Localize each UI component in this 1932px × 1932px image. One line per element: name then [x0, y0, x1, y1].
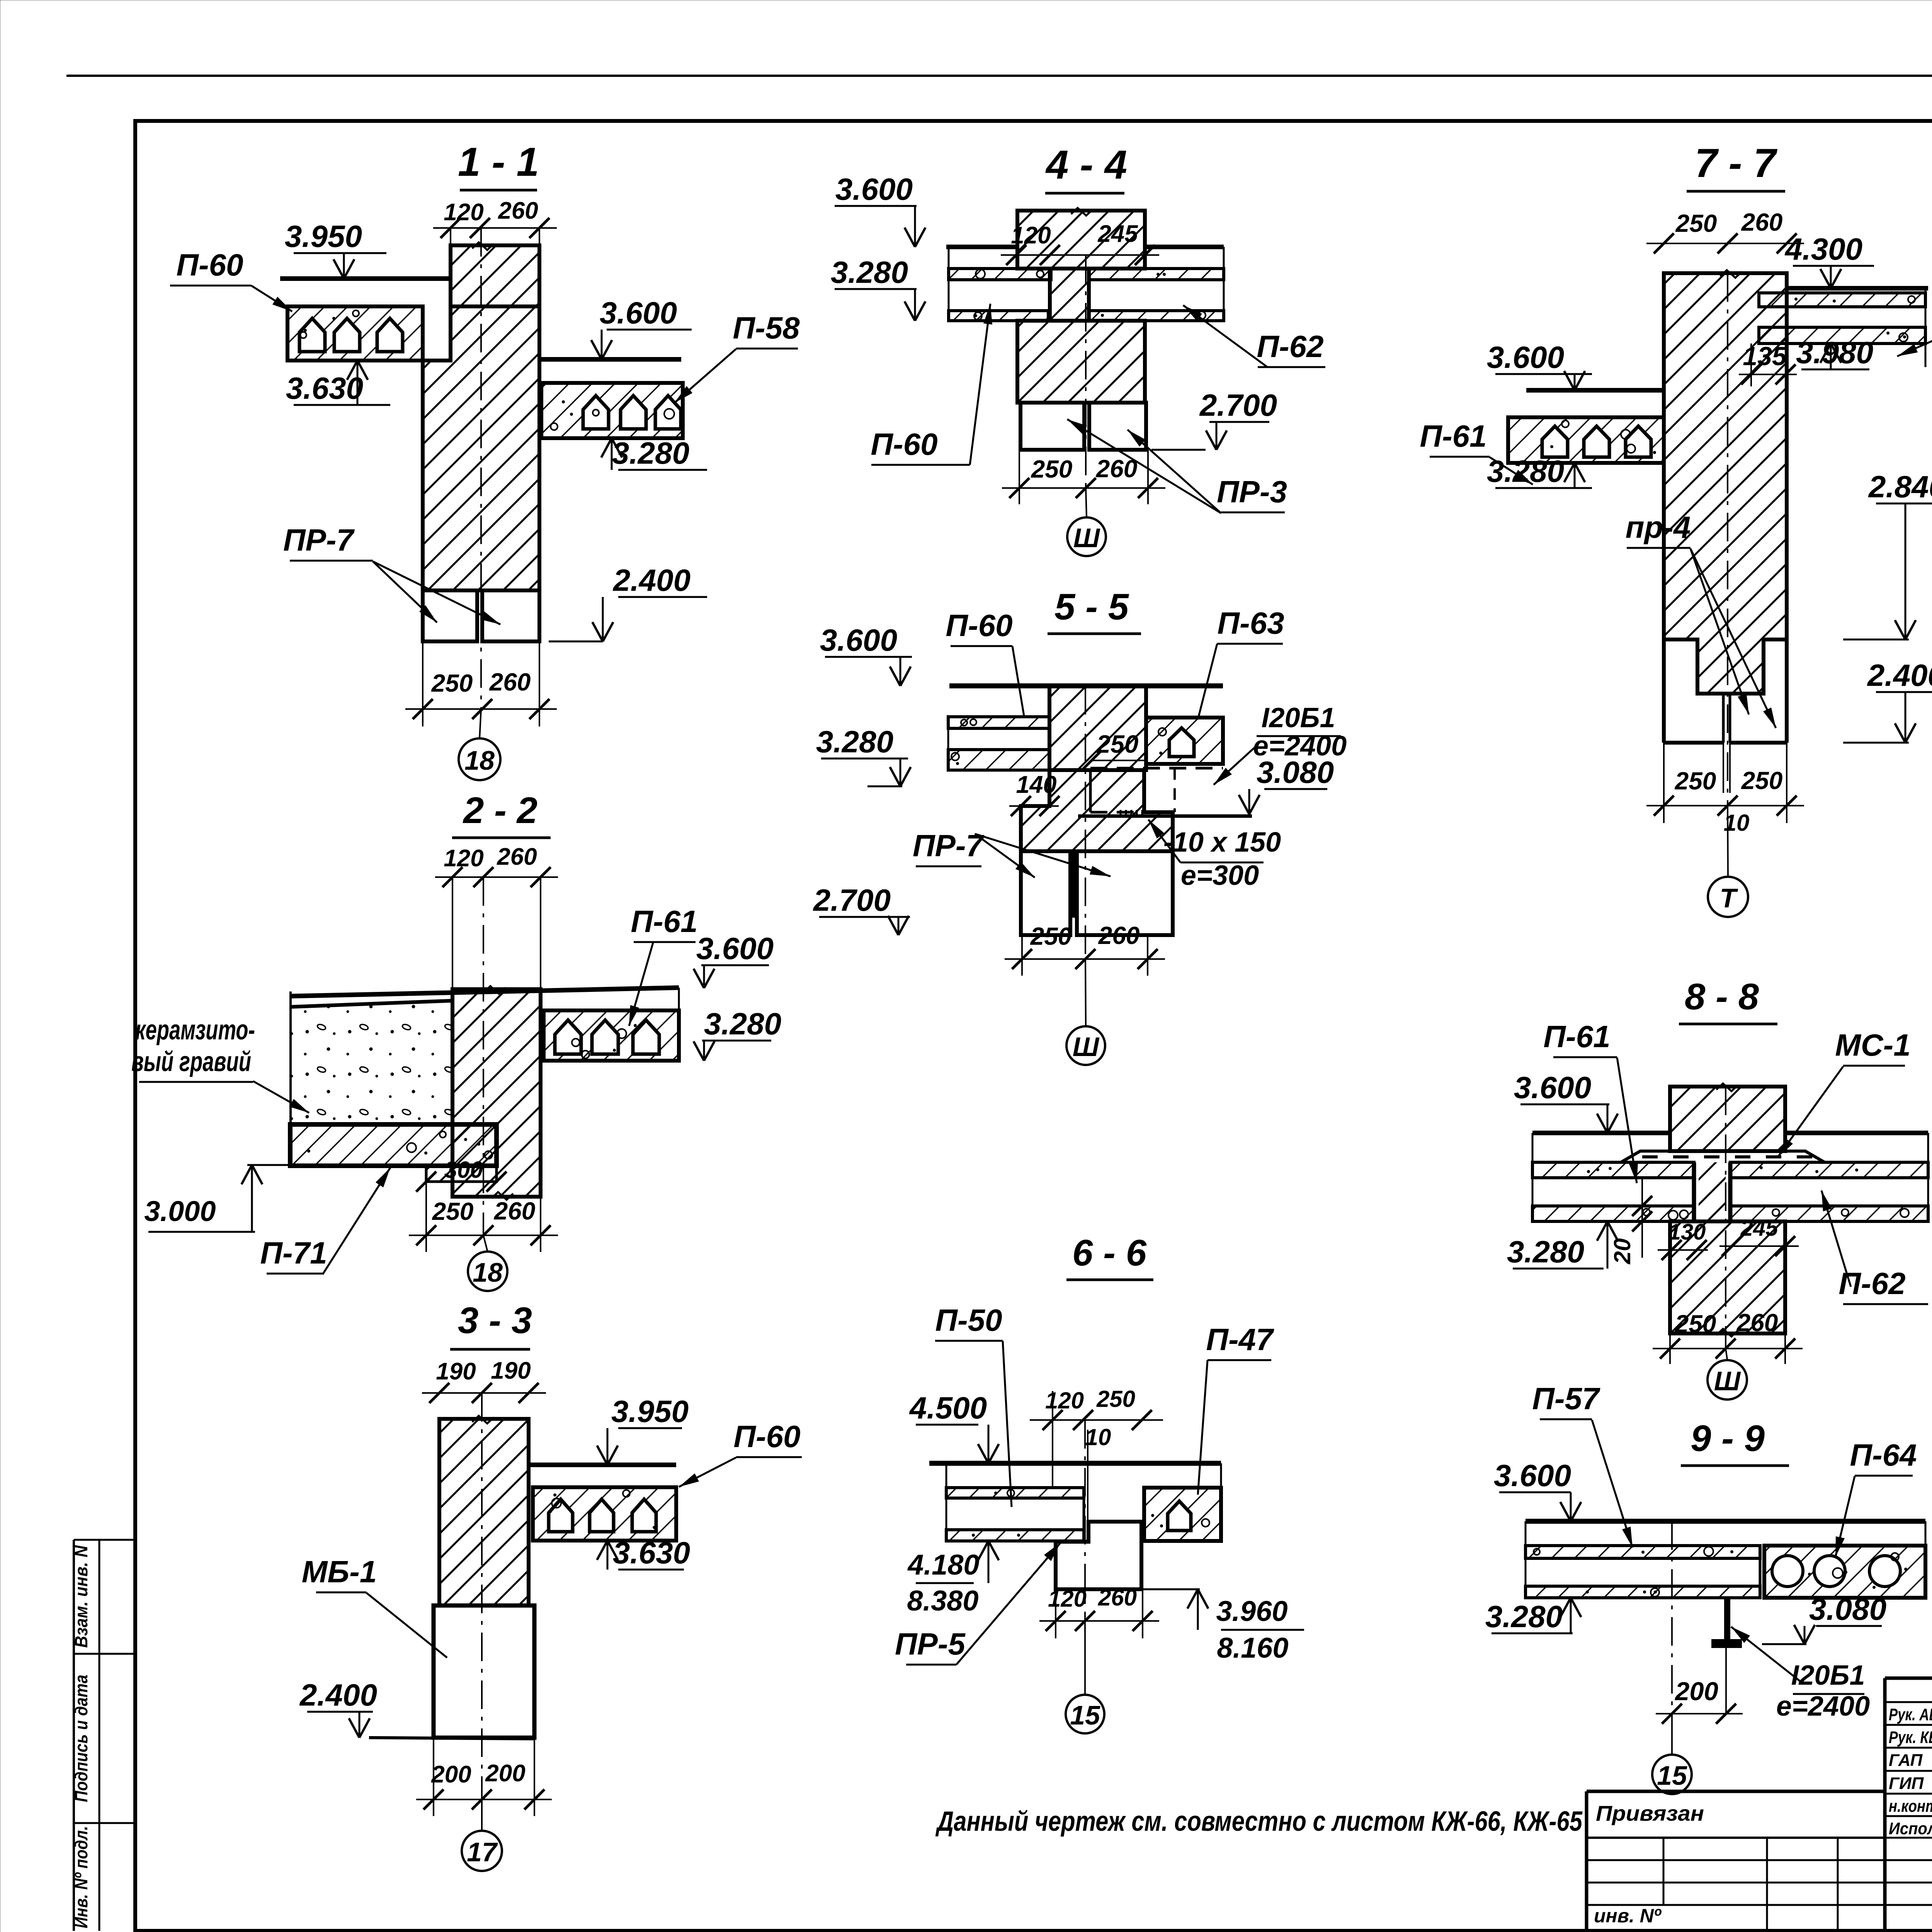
svg-text:200: 200 [485, 1760, 525, 1787]
svg-text:260: 260 [1096, 455, 1138, 483]
svg-text:18: 18 [464, 745, 495, 776]
svg-text:260: 260 [1741, 208, 1783, 236]
svg-text:250: 250 [1031, 455, 1073, 483]
4-4 centerline [1085, 255, 1087, 488]
6-6 centerline [1084, 1420, 1086, 1621]
4-4 lintel blocks ПР-3 [1020, 403, 1084, 450]
svg-text:П-62: П-62 [1257, 329, 1323, 364]
axis circle 18 below 2-2 [483, 1235, 488, 1252]
5-5 right slab panel П-63 [1146, 718, 1223, 764]
lower-left grid of title block [1587, 1859, 1885, 1861]
2-2 roof top sloping line [291, 988, 679, 996]
svg-text:П-60: П-60 [871, 427, 937, 461]
svg-text:4.300: 4.300 [1784, 232, 1862, 266]
svg-text:-10 x 150: -10 x 150 [1163, 827, 1281, 858]
svg-text:200: 200 [1674, 1677, 1718, 1706]
left sidebar stamp boxes [73, 1540, 75, 1931]
5-5 steel beam I20Б1 dashed [1090, 767, 1223, 770]
svg-text:250: 250 [1675, 767, 1716, 795]
svg-text:140: 140 [1016, 771, 1056, 798]
axis circle Ш for 5-5 [1085, 959, 1086, 1026]
6-6 right slab panel П-47 [1144, 1488, 1221, 1541]
svg-text:3.600: 3.600 [1494, 1458, 1571, 1493]
svg-text:П-64: П-64 [1850, 1438, 1917, 1472]
svg-text:15: 15 [1657, 1760, 1687, 1791]
2-2 keramzit gravel fill [291, 1000, 452, 1124]
svg-text:3.600: 3.600 [1487, 340, 1564, 374]
svg-text:П-57: П-57 [1532, 1381, 1600, 1416]
svg-text:190: 190 [491, 1357, 531, 1384]
7-7 left floor line [1526, 388, 1664, 393]
svg-text:3.280: 3.280 [704, 1007, 781, 1041]
svg-text:5 - 5: 5 - 5 [1054, 586, 1129, 628]
svg-text:3.960: 3.960 [1216, 1595, 1287, 1627]
8-8 slab strips left П-61 [1532, 1162, 1694, 1178]
svg-text:Т: Т [1720, 883, 1738, 913]
axis circle Ш for 4-4 [1086, 488, 1087, 517]
5-5 floor line [949, 684, 1223, 689]
svg-text:135: 135 [1743, 342, 1787, 371]
svg-text:260: 260 [1098, 922, 1140, 949]
9-9 centerline [1671, 1521, 1673, 1714]
3-3 block МБ-1 [434, 1605, 534, 1738]
svg-text:П-60: П-60 [946, 608, 1012, 643]
svg-text:250: 250 [1675, 1310, 1716, 1338]
4-4 right slab strips [1089, 269, 1224, 280]
svg-text:П-60: П-60 [733, 1419, 800, 1454]
svg-text:ПР-5: ПР-5 [895, 1627, 966, 1661]
svg-text:250: 250 [1675, 209, 1717, 237]
svg-text:Ш: Ш [1073, 1032, 1100, 1062]
svg-text:МС-1: МС-1 [1835, 1028, 1911, 1062]
7-7 brick wall [1664, 273, 1787, 694]
svg-text:8.160: 8.160 [1217, 1632, 1288, 1664]
svg-text:3.600: 3.600 [696, 931, 774, 966]
svg-text:3.280: 3.280 [831, 255, 908, 289]
title block outline [1885, 1677, 1932, 1680]
svg-text:П-50: П-50 [935, 1303, 1002, 1337]
8-8 brick wall lower [1670, 1221, 1785, 1333]
svg-text:250: 250 [1096, 730, 1138, 758]
svg-text:120: 120 [1048, 1586, 1087, 1612]
svg-text:вый гравий: вый гравий [131, 1046, 251, 1077]
8-8 connecting plate МС-1 [1621, 1151, 1825, 1162]
svg-text:3.630: 3.630 [286, 371, 363, 405]
svg-text:инв. Nº: инв. Nº [1594, 1905, 1662, 1927]
3-3 right floor line [529, 1463, 676, 1467]
7-7 right slab strips П-47 [1759, 293, 1925, 307]
1-1 wall centerline [480, 228, 482, 709]
svg-text:П-63: П-63 [1217, 606, 1284, 640]
svg-text:П-58: П-58 [733, 311, 800, 345]
svg-text:20: 20 [1609, 1238, 1635, 1265]
svg-text:3.600: 3.600 [1514, 1070, 1591, 1105]
svg-text:пр-4: пр-4 [1626, 510, 1691, 544]
3-3 brick wall [439, 1419, 529, 1605]
svg-text:керамзито-: керамзито- [135, 1015, 255, 1046]
svg-text:н.контр.: н.контр. [1889, 1797, 1932, 1816]
svg-text:ПР-3: ПР-3 [1217, 474, 1287, 509]
svg-text:I20Б1: I20Б1 [1791, 1660, 1865, 1691]
title block personnel table [1885, 1701, 1932, 1703]
8-8 brick wall upper [1670, 1087, 1785, 1151]
svg-text:ПР-7: ПР-7 [913, 828, 985, 863]
svg-text:П-61: П-61 [1543, 1019, 1610, 1054]
svg-text:e=2400: e=2400 [1776, 1691, 1870, 1722]
svg-text:200: 200 [431, 1761, 471, 1788]
7-7 right floor line [1787, 286, 1928, 291]
8-8 centerline [1725, 1087, 1726, 1349]
svg-text:3.280: 3.280 [612, 436, 689, 470]
1-1 lintel blocks ПР-7 [423, 590, 477, 641]
9-9 floor line [1526, 1519, 1925, 1524]
svg-text:2.400: 2.400 [299, 1678, 377, 1712]
axis circle 17 [481, 1799, 483, 1831]
svg-text:15: 15 [1070, 1700, 1100, 1730]
svg-text:9 - 9: 9 - 9 [1690, 1418, 1765, 1459]
1-1 right slab panel П-58 [541, 383, 683, 438]
svg-text:3 - 3: 3 - 3 [458, 1300, 532, 1341]
svg-text:2 - 2: 2 - 2 [463, 790, 537, 831]
svg-text:4.500: 4.500 [909, 1391, 987, 1425]
svg-text:260: 260 [497, 844, 537, 870]
svg-text:ГАП: ГАП [1889, 1751, 1923, 1770]
svg-text:3.080: 3.080 [1809, 1592, 1886, 1626]
8-8 floor lines [1532, 1131, 1670, 1135]
9-9 left slab strips П-57 [1526, 1546, 1760, 1558]
svg-text:П-61: П-61 [1420, 419, 1486, 453]
sheet top edge line [66, 75, 1932, 77]
svg-text:3.600: 3.600 [600, 296, 677, 330]
2-2 centerline [483, 877, 484, 1235]
svg-text:250: 250 [1030, 922, 1072, 950]
привязан box [1587, 1790, 1885, 1793]
svg-text:250: 250 [1096, 1386, 1135, 1412]
5-5 brick wall [1049, 686, 1146, 770]
svg-text:Подпись и дата: Подпись и дата [71, 1675, 91, 1802]
svg-text:120: 120 [1045, 1388, 1084, 1413]
svg-text:П-61: П-61 [631, 904, 697, 939]
svg-text:260: 260 [1098, 1585, 1137, 1611]
axis circle 18 between 1-1 and 2-2 [480, 709, 481, 739]
svg-text:8.380: 8.380 [907, 1585, 978, 1617]
svg-text:2.700: 2.700 [813, 883, 891, 917]
5-5 lintel blocks ПР-7 [1021, 851, 1070, 935]
svg-text:120: 120 [444, 199, 483, 226]
svg-text:2.400: 2.400 [612, 563, 690, 597]
svg-text:2.840: 2.840 [1868, 469, 1932, 504]
svg-text:130: 130 [1668, 1219, 1706, 1245]
svg-text:Рук. КБ-1: Рук. КБ-1 [1889, 1728, 1932, 1747]
svg-text:П-60: П-60 [176, 248, 243, 282]
svg-text:245: 245 [1740, 1216, 1779, 1241]
svg-text:3.630: 3.630 [613, 1536, 690, 1570]
svg-text:17: 17 [467, 1837, 498, 1867]
axis circle 15 for 6-6 [1084, 1621, 1086, 1695]
svg-text:3.600: 3.600 [835, 172, 913, 206]
svg-text:250: 250 [1741, 767, 1783, 794]
svg-text:120: 120 [444, 845, 483, 872]
axis circle Ш for 8-8 [1726, 1349, 1727, 1359]
svg-text:3.950: 3.950 [285, 219, 362, 253]
svg-text:3.950: 3.950 [611, 1394, 689, 1429]
svg-text:260: 260 [498, 197, 538, 224]
svg-text:МБ-1: МБ-1 [302, 1554, 377, 1589]
svg-text:300: 300 [444, 1157, 483, 1183]
svg-text:3.280: 3.280 [1487, 454, 1564, 488]
svg-text:П-47: П-47 [1206, 1322, 1274, 1357]
svg-text:3.600: 3.600 [820, 623, 897, 657]
svg-text:П-62: П-62 [1838, 1266, 1905, 1301]
svg-text:260: 260 [489, 668, 531, 696]
svg-text:П-71: П-71 [260, 1236, 327, 1270]
svg-text:18: 18 [473, 1257, 503, 1287]
5-5 left slab strips [948, 717, 1049, 728]
8-8 wall stem between slab ends [1699, 1162, 1726, 1221]
6-6 floor line [929, 1461, 1221, 1466]
svg-text:245: 245 [1097, 221, 1138, 247]
2-2 brick wall [452, 989, 541, 1197]
1-1 left slab panel П-60 [287, 306, 423, 361]
svg-text:190: 190 [436, 1358, 476, 1385]
svg-text:250: 250 [432, 1197, 474, 1225]
svg-text:250: 250 [431, 669, 473, 697]
8-8 slab strips right П-62 [1730, 1162, 1928, 1178]
2-2 step under П-71 [426, 1166, 497, 1182]
svg-text:7 - 7: 7 - 7 [1695, 141, 1778, 186]
svg-text:ПР-7: ПР-7 [283, 523, 355, 557]
svg-text:Ш: Ш [1073, 523, 1100, 553]
svg-text:4.180: 4.180 [907, 1549, 979, 1581]
1-1 brick wall [451, 245, 539, 306]
svg-text:3.080: 3.080 [1257, 755, 1334, 789]
2-2 slab П-71 [290, 1124, 497, 1166]
svg-text:Привязан: Привязан [1596, 1801, 1704, 1825]
9-9 right slab panel П-64 with round voids [1764, 1546, 1925, 1598]
svg-text:10: 10 [1085, 1424, 1111, 1450]
svg-text:2.700: 2.700 [1199, 388, 1277, 422]
axis circle Т for 7-7 [1728, 806, 1728, 876]
6-6 beam block ПР-5 [1056, 1522, 1141, 1589]
svg-text:Рук. АБ-1: Рук. АБ-1 [1889, 1705, 1932, 1724]
svg-text:2.400: 2.400 [1867, 658, 1932, 692]
svg-text:Данный чертеж см. совместно с: Данный чертеж см. совместно с листом КЖ-… [935, 1806, 1583, 1837]
4-4 left floor line [946, 245, 1017, 249]
6-6 left slab strips [946, 1488, 1084, 1498]
svg-text:4 - 4: 4 - 4 [1045, 142, 1127, 187]
4-4 right floor line [1145, 245, 1224, 249]
svg-text:3.000: 3.000 [144, 1195, 216, 1227]
svg-text:Исполн.: Исполн. [1889, 1819, 1932, 1838]
4-4 brick wall upper [1017, 211, 1145, 269]
svg-text:e=300: e=300 [1181, 860, 1259, 891]
4-4 brick wall lower [1017, 321, 1145, 403]
svg-text:Ш: Ш [1714, 1366, 1741, 1396]
svg-text:260: 260 [494, 1197, 536, 1225]
3-3 centerline [481, 1393, 483, 1799]
axis circle 15 for 9-9 [1671, 1714, 1673, 1754]
svg-text:8 - 8: 8 - 8 [1685, 976, 1759, 1017]
3-3 right slab panel П-60 [533, 1487, 676, 1541]
svg-text:260: 260 [1736, 1309, 1778, 1337]
svg-text:3.280: 3.280 [1507, 1235, 1584, 1269]
svg-text:I20Б1: I20Б1 [1261, 702, 1335, 733]
svg-text:1 - 1: 1 - 1 [458, 139, 539, 185]
7-7 left slab panel П-61 [1508, 417, 1664, 463]
4-4 left slab strips [949, 269, 1051, 280]
svg-text:3.280: 3.280 [1485, 1599, 1563, 1634]
svg-text:ГИП: ГИП [1889, 1774, 1924, 1793]
5-5 steel plate -10x150 [1078, 815, 1252, 818]
5-5 centerline [1085, 686, 1086, 959]
1-1 right floor line [539, 357, 681, 362]
7-7 white masonry bottom with groove ПР-4 [1662, 639, 1666, 743]
2-2 right slab panel П-61 [544, 1010, 679, 1061]
7-7 centerline [1727, 273, 1728, 806]
svg-text:3.280: 3.280 [816, 724, 893, 759]
9-9 steel I-beam [1716, 1596, 1739, 1599]
4-4 wall between slabs [1050, 269, 1089, 321]
svg-text:Взам. инв. N: Взам. инв. N [71, 1545, 91, 1648]
svg-text:Инв. Nº подл.: Инв. Nº подл. [71, 1826, 91, 1929]
1-1 left floor line [280, 276, 451, 281]
svg-text:6 - 6: 6 - 6 [1072, 1232, 1147, 1274]
